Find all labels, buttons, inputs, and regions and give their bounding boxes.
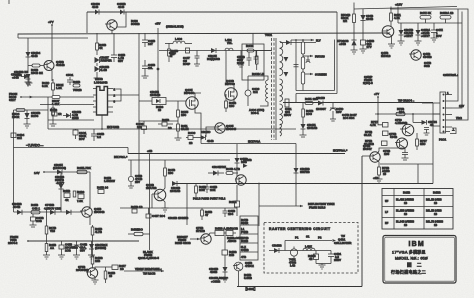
- svg-text:R41B: R41B: [403, 191, 410, 195]
- wire vertical x158 +B1V: [157, 28, 159, 97]
- dashed box raster centering: [264, 223, 358, 274]
- MOSFET Q403: [225, 88, 237, 100]
- wire primary bottom: [260, 102, 268, 106]
- diode CR474: [416, 23, 421, 41]
- resistor R413c pill: [31, 211, 40, 214]
- capacitor C405b: [254, 51, 259, 64]
- diode D14V: [243, 164, 248, 168]
- wire y23 right: [398, 22, 462, 24]
- MOSFET Q402: [186, 97, 198, 109]
- resistor R416 box: [78, 194, 84, 199]
- wire x354 R7010: [353, 3, 355, 15]
- resistor R476b vert: [52, 106, 55, 120]
- wire bus y154 EXT VGA: [128, 153, 345, 155]
- ground gq: [175, 136, 182, 140]
- resistor R415b vert: [91, 225, 94, 241]
- resistor R43B box1: [215, 231, 224, 236]
- node y114b: [412, 113, 414, 115]
- wire q403 down: [233, 100, 235, 105]
- diode CR420: [196, 135, 206, 140]
- electrolytic C470: [330, 103, 336, 116]
- diode CR409: [95, 66, 100, 76]
- node rc arrow: [333, 239, 337, 242]
- wire mid bus from R109: [21, 96, 94, 98]
- svg-text:P2: P2: [318, 236, 322, 240]
- node +7v: [377, 96, 379, 98]
- wire x391 drop: [390, 7, 392, 14]
- svg-text:S1: S1: [306, 235, 310, 239]
- wire EXT/VGA y143: [201, 143, 296, 145]
- capacitor C409: [142, 121, 147, 134]
- resistor R48D box: [314, 251, 319, 264]
- resistor R41c vert: [104, 267, 107, 283]
- resistor R48C vert: [91, 241, 94, 269]
- diode CR505: [24, 110, 31, 128]
- wire q43b emitter: [51, 69, 54, 81]
- ground row g3: [73, 255, 80, 259]
- wire HV vertical x297: [295, 40, 297, 91]
- transistor Q713: [200, 234, 211, 244]
- wire rc main: [269, 250, 331, 252]
- wire to cr204: [422, 102, 433, 104]
- wire q73b collector: [378, 148, 392, 154]
- ground g4: [238, 63, 244, 67]
- ground g8: [162, 208, 169, 212]
- wire HV out: [291, 39, 314, 42]
- IC U402: [97, 87, 108, 116]
- svg-text:4B: 4B: [309, 257, 313, 261]
- wire bottom line right: [237, 286, 301, 288]
- wire x225b: [224, 236, 226, 251]
- resistor R448 vert: [164, 160, 167, 184]
- ground row g1: [43, 255, 50, 259]
- capacitor c73b: [391, 148, 408, 158]
- component block K4B1: [240, 216, 258, 260]
- resistor R418b: [98, 190, 104, 194]
- resistor R504 horizontal: [16, 109, 25, 112]
- svg-text:1B: 1B: [404, 213, 407, 216]
- wire HV cage bottom inner: [296, 90, 335, 92]
- node arrowhead deflection: [300, 205, 303, 207]
- ground gc4c8: [30, 225, 37, 227]
- pot T4B1: [290, 247, 297, 261]
- wire x398: [397, 7, 399, 24]
- capacitor C4BB: [361, 40, 366, 49]
- ground gd474: [415, 41, 422, 45]
- wire vertical x418: [417, 164, 419, 184]
- wire deflection arrow: [259, 205, 303, 207]
- resistor bleeder chain x303: [301, 40, 304, 91]
- wire q402 drain up: [195, 93, 201, 98]
- diode CR702: [360, 15, 365, 40]
- ground g3: [194, 62, 200, 66]
- ground gr73: [376, 179, 383, 183]
- wire q73b base: [362, 155, 368, 157]
- resistor R472 pill: [420, 16, 431, 24]
- transistor Q406: [105, 20, 117, 30]
- capacitor C428: [111, 33, 117, 62]
- wire vertical x139: [138, 33, 140, 176]
- resistor R48B pill: [128, 232, 150, 235]
- resistor R402 pill: [247, 49, 262, 52]
- resistor R43B box2: [224, 231, 236, 236]
- transistor Q718: [395, 138, 408, 149]
- resistor R41d box: [101, 265, 118, 270]
- resistor snubber: [255, 50, 258, 70]
- svg-text:L4B: L4B: [290, 264, 295, 268]
- ground gd473: [398, 41, 405, 45]
- title block inner: [385, 237, 455, 281]
- svg-text:1B: 1B: [404, 224, 407, 227]
- wire left vertical bus: [13, 110, 15, 212]
- wire ic to gate box: [113, 94, 139, 96]
- wire q471 down: [391, 36, 393, 45]
- wire base conn: [235, 180, 238, 182]
- svg-text:R4BB: R4BB: [433, 191, 441, 195]
- wire x362 tall: [361, 156, 363, 287]
- wire stub top corner: [8, 0, 10, 4]
- diode CR421: [301, 122, 306, 133]
- capacitor C434: [11, 133, 16, 138]
- wire ic right net: [113, 89, 121, 101]
- connector P201: [440, 92, 446, 133]
- diode CR443: [208, 171, 224, 176]
- diode CR724: [413, 114, 427, 125]
- wire y50 chain: [159, 50, 272, 52]
- title block outer: [383, 236, 456, 284]
- wire q71d down: [238, 271, 240, 287]
- wire rc drop1: [284, 241, 286, 251]
- wire q405 base: [206, 127, 213, 137]
- transistor Q44B: [235, 175, 246, 185]
- svg-text:1B: 1B: [434, 213, 437, 216]
- wire y120: [48, 119, 94, 121]
- diode CR41C: [223, 267, 228, 278]
- wire rc gnd bus: [316, 263, 331, 265]
- node dot x158y68: [157, 68, 160, 71]
- capacitor C724: [424, 128, 429, 134]
- wire x433 up: [432, 103, 434, 150]
- resistor R428 vertical: [96, 33, 99, 55]
- diode CR413: [59, 184, 64, 189]
- capacitor snubber: [247, 52, 252, 66]
- wire +7V drop: [51, 25, 53, 34]
- capacitor C426: [142, 33, 148, 47]
- capacitor C501: [67, 77, 73, 85]
- node hv2: [302, 39, 304, 41]
- snubber box: [242, 44, 264, 80]
- wire corner x128: [127, 148, 129, 154]
- wire q41b e: [89, 216, 92, 226]
- diode D212b: [66, 210, 71, 215]
- ground sym1: [94, 76, 101, 82]
- wire r507: [40, 104, 52, 106]
- resistor R411 vert: [177, 121, 180, 136]
- ground g5: [26, 79, 33, 85]
- diode CR48B: [274, 248, 279, 253]
- ground row g4: [88, 255, 95, 259]
- transformer HV secondary winding: [280, 42, 283, 76]
- node hv: [295, 39, 297, 41]
- IC pin stubs left: [93, 89, 97, 113]
- inductor L4B2: [303, 248, 315, 250]
- transistor Q71D: [233, 262, 243, 271]
- svg-text:CØLLECTØR: CØLLECTØR: [334, 241, 351, 245]
- IC pin stubs right: [108, 89, 114, 113]
- wire right frame line inner: [452, 12, 462, 109]
- resistor R1N5 vert: [177, 101, 180, 121]
- wire q403 up: [226, 51, 234, 89]
- pin bracket: [450, 128, 456, 134]
- svg-text:17″VGA 多模彩显: 17″VGA 多模彩显: [392, 250, 426, 255]
- resistor R41B vert2: [195, 184, 198, 199]
- transformer winding sec3: [280, 104, 283, 125]
- capacitor C413c: [59, 241, 64, 255]
- diode HV low: [284, 72, 289, 77]
- resistor R738 pill: [396, 112, 405, 115]
- wire snubber feed: [252, 34, 254, 45]
- wire R504 row: [14, 109, 49, 111]
- wire ic bottom: [101, 115, 103, 129]
- resistor R47B box: [132, 209, 137, 213]
- capacitor C4C8: [31, 214, 36, 225]
- resistor R423 vert: [302, 103, 305, 122]
- wire y121: [139, 120, 178, 122]
- component C437: [146, 208, 151, 218]
- wire transistor tie: [117, 12, 127, 27]
- svg-text:1B: 1B: [404, 202, 407, 205]
- wire y129 node: [101, 128, 103, 130]
- wire vertical x433: [432, 150, 434, 184]
- diode HV rectifier top: [280, 40, 316, 45]
- transistor Q717: [400, 124, 414, 136]
- diode CR473: [399, 23, 404, 41]
- wire vertical drop x337: [336, 12, 338, 33]
- resistor R430 pill: [28, 64, 44, 67]
- wire top right +12V bus: [354, 7, 457, 10]
- resistor R498: [73, 84, 80, 87]
- wire video arrow: [124, 270, 164, 272]
- wire vertical x259: [258, 184, 260, 226]
- wire y241 bus: [28, 240, 139, 242]
- node y114a: [377, 113, 379, 115]
- resistor R717b vert: [416, 133, 419, 150]
- wire y114: [375, 113, 440, 115]
- wire y164 seg: [380, 163, 433, 165]
- wire base x152: [151, 194, 153, 208]
- wire bus EXT line y129: [48, 128, 296, 130]
- ground gq71: [92, 280, 99, 284]
- node y183x296: [295, 183, 297, 185]
- wire q40b e: [163, 200, 165, 208]
- capacitor C413b: [205, 184, 210, 194]
- capacitor HV filter: [294, 65, 299, 67]
- wire q71c c: [95, 267, 101, 270]
- resistor R410 vertical: [168, 43, 171, 62]
- wire left col mid: [236, 185, 238, 201]
- diode CR43E on x296: [294, 168, 299, 173]
- ground gt3: [351, 50, 358, 54]
- wire HV cage bottom outer: [296, 93, 337, 95]
- ground gt2: [330, 116, 336, 121]
- node start: [20, 96, 22, 98]
- resistor R443: [226, 172, 238, 175]
- transistor Q43B: [44, 61, 54, 71]
- wire q40b: [163, 184, 165, 191]
- svg-text:CR4BB: CR4BB: [272, 244, 282, 248]
- transistor Q41B: [80, 207, 92, 217]
- diode CR43C: [17, 210, 22, 215]
- diode CR406: [95, 10, 99, 15]
- ground g6: [50, 120, 57, 126]
- resistor R417 vert: [73, 191, 76, 197]
- svg-text:LF: LF: [385, 211, 388, 214]
- table frame: [382, 189, 453, 230]
- electrolytic focus: [306, 56, 310, 63]
- wire drop x87: [86, 12, 88, 33]
- wire screen out: [303, 73, 313, 75]
- electrolytic C4B1: [328, 251, 334, 264]
- wire vertical x296: [295, 144, 297, 207]
- capacitor C447: [195, 51, 200, 63]
- inductor L409: [165, 41, 192, 43]
- svg-text:图 二: 图 二: [407, 263, 423, 269]
- svg-text:BF: BF: [385, 222, 389, 225]
- capacitor C472: [431, 23, 437, 38]
- diode CR429: [318, 101, 323, 106]
- wire ext vdc: [14, 147, 129, 149]
- wire q43b collector: [51, 34, 54, 62]
- diode CR47B: [89, 241, 94, 255]
- wire HV cage right inner: [334, 40, 336, 91]
- diode CR433 top-left: [21, 74, 29, 79]
- svg-text:行场扫描电路之二: 行场扫描电路之二: [391, 269, 426, 275]
- diode chain CR41B: [172, 181, 177, 186]
- diode D212a: [50, 210, 55, 215]
- diode CR442: [211, 48, 216, 53]
- node +7V top left: [51, 24, 53, 26]
- resistor R458 box: [64, 193, 70, 198]
- wire left col low: [236, 207, 238, 216]
- wire sec mid tap: [283, 102, 433, 104]
- transistor Q73B: [368, 152, 380, 162]
- capacitor C413: [128, 160, 133, 186]
- wire 14V bus: [44, 171, 90, 173]
- wire right frame line outer: [390, 9, 468, 120]
- wire x28 drop: [27, 38, 29, 73]
- wire y212 bus left: [14, 211, 83, 213]
- transformer T401 core lines: [272, 38, 277, 140]
- wire bus y160: [128, 159, 230, 161]
- diode CR434: [26, 52, 31, 57]
- diode CR443tl: [26, 74, 31, 79]
- capacitor C618: [91, 129, 97, 141]
- resistor R418: [158, 122, 173, 126]
- ground gc73: [402, 158, 409, 160]
- transformer winding sec4: [280, 124, 281, 136]
- capacitor C427: [142, 60, 148, 74]
- wire topleft second line: [18, 37, 88, 39]
- ground grc: [319, 264, 326, 270]
- wire top bus +12V left segment: [87, 11, 337, 13]
- resistor R717 box: [378, 114, 388, 127]
- resistor R7010: [353, 14, 356, 40]
- wire rc top: [285, 240, 332, 242]
- wire bottom extension: [301, 286, 362, 288]
- transistor Q71C: [86, 268, 98, 278]
- electroytic C409b left: [245, 76, 251, 106]
- ground gt1: [300, 133, 307, 137]
- capacitor C44B: [74, 241, 80, 255]
- diode CR438: [63, 113, 71, 118]
- capacitor C43Bv: [223, 208, 228, 217]
- ground sym2: [142, 74, 149, 78]
- wire b+ to fbt: [262, 50, 271, 52]
- resistor R409: [186, 136, 196, 140]
- wire q41b c: [89, 207, 92, 209]
- node from751: [27, 240, 29, 242]
- resistor R45B vert: [201, 208, 204, 220]
- wire main top bus: [18, 33, 390, 34]
- wire y208 bus: [120, 207, 237, 209]
- transistor Q40B: [152, 189, 166, 201]
- wire HV cage right outer: [336, 33, 338, 94]
- wire x363 chain: [362, 9, 364, 15]
- wire q71c e: [94, 277, 96, 281]
- capacitor C403: [239, 51, 244, 64]
- component box C101: [73, 129, 78, 139]
- ground gc472: [431, 38, 438, 42]
- svg-text:RASTER CENTERING CIRCUIT: RASTER CENTERING CIRCUIT: [269, 227, 331, 231]
- wire primary top: [248, 76, 268, 80]
- resistor R413 pill: [77, 170, 87, 173]
- svg-text:1B: 1B: [434, 202, 437, 205]
- transformer winding sec2: [280, 79, 283, 101]
- connector pin dots: [443, 94, 445, 133]
- wire q406 emitter: [111, 30, 113, 34]
- resistor R718 box: [383, 131, 389, 136]
- ground tl: [25, 79, 32, 86]
- wire focus out: [303, 55, 313, 57]
- ground gc724: [424, 133, 430, 135]
- wire bright arrow: [190, 238, 200, 240]
- diode CR412: [57, 170, 62, 175]
- transformer primary left winding: [266, 80, 268, 102]
- node y183x259: [258, 183, 260, 185]
- resistor R41.2 box: [234, 201, 239, 207]
- ground g7: [128, 186, 134, 188]
- wire x90 drop: [89, 172, 91, 207]
- resistor R43B2 box: [222, 250, 228, 267]
- svg-text:L4BZ: L4BZ: [305, 245, 312, 249]
- svg-text:25BV: 25BV: [334, 258, 341, 262]
- wire q713 c: [209, 233, 216, 236]
- ground row g2: [58, 255, 65, 259]
- resistor R502 vertical: [52, 79, 55, 97]
- node 14v: [43, 171, 45, 173]
- diode CR701: [351, 40, 356, 50]
- ground gt4: [360, 49, 367, 53]
- diode CR427 jumper: [95, 57, 100, 66]
- connector pins: [433, 9, 458, 132]
- wire x61 drop: [60, 172, 62, 212]
- svg-text:MØDEL NØ.: 65Ø: MØDEL NØ.: 65Ø: [395, 257, 428, 261]
- wire top-left frame corner: [17, 34, 19, 39]
- component box sec: [285, 99, 289, 107]
- resistor R17B vert: [45, 208, 48, 241]
- diode HV mid: [284, 57, 289, 62]
- resistor R478 box: [52, 112, 57, 116]
